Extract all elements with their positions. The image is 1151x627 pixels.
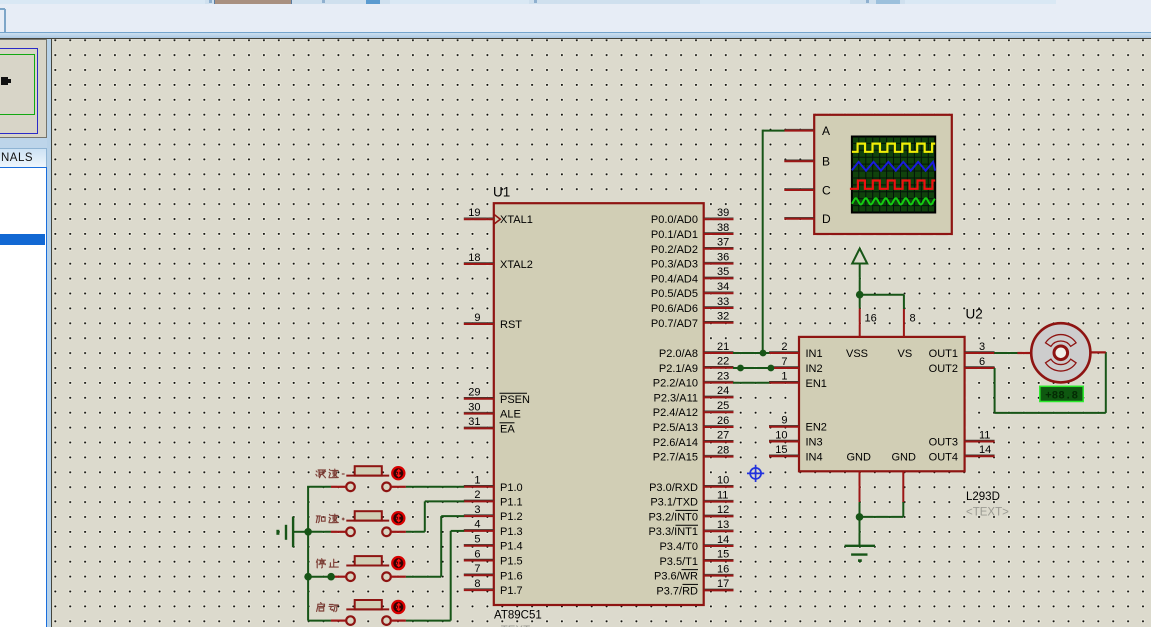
- svg-text:6: 6: [979, 356, 985, 368]
- svg-text:P3.4/T0: P3.4/T0: [659, 541, 698, 553]
- svg-text:28: 28: [717, 444, 729, 456]
- svg-text:P0.6/AD6: P0.6/AD6: [651, 303, 698, 315]
- junction GND: [856, 513, 864, 521]
- oscilloscope screen: [852, 137, 935, 213]
- svg-text:21: 21: [717, 341, 729, 353]
- NALS tab header: [0, 148, 47, 168]
- svg-text:16: 16: [865, 313, 877, 325]
- svg-text:EA: EA: [500, 423, 515, 435]
- svg-text:10: 10: [717, 475, 729, 487]
- svg-text:P2.1/A9: P2.1/A9: [659, 363, 698, 375]
- origin marker: [747, 465, 764, 482]
- svg-text:1: 1: [781, 371, 787, 383]
- wire bus to SW1: [307, 486, 331, 488]
- toolbar main band: [0, 4, 1151, 32]
- svg-text:IN2: IN2: [806, 363, 823, 375]
- svg-text:P0.1/AD1: P0.1/AD1: [651, 229, 698, 241]
- svg-text:24: 24: [717, 385, 729, 397]
- svg-text:3: 3: [979, 341, 985, 353]
- svg-text:XTAL2: XTAL2: [500, 259, 533, 271]
- svg-text:C: C: [822, 183, 831, 197]
- svg-text:GND: GND: [847, 451, 872, 463]
- ground symbol left (rotated): [278, 517, 308, 548]
- motor rpm display +88.8: [1040, 386, 1083, 402]
- svg-text:16: 16: [717, 563, 729, 575]
- button actuator 2: [392, 512, 404, 524]
- svg-text:OUT2: OUT2: [929, 363, 958, 375]
- push button SW4 (启动): [317, 600, 406, 625]
- wire VSS junction to VS: [860, 295, 904, 309]
- left preview panel: [0, 39, 47, 138]
- svg-text:31: 31: [468, 416, 480, 428]
- svg-text:IN1: IN1: [806, 348, 823, 360]
- svg-text:B: B: [822, 155, 830, 169]
- oscilloscope body: [814, 115, 952, 234]
- wire OUT2 around to motor right: [995, 352, 1106, 413]
- svg-text:AT89C51: AT89C51: [494, 610, 542, 622]
- svg-text:33: 33: [717, 296, 729, 308]
- svg-text:P1.1: P1.1: [500, 496, 523, 508]
- svg-text:P3.6/WR: P3.6/WR: [654, 571, 698, 583]
- svg-text:P0.3/AD3: P0.3/AD3: [651, 259, 698, 271]
- wire left bus vertical: [307, 487, 309, 621]
- push button SW1 (减速): [316, 466, 406, 491]
- wire GND pins to ground: [860, 502, 904, 546]
- svg-text:P0.5/AD5: P0.5/AD5: [651, 288, 698, 300]
- svg-text:A: A: [822, 124, 830, 138]
- svg-text:27: 27: [717, 430, 729, 442]
- toolbar top fragments: [0, 0, 1056, 4]
- svg-text:P1.7: P1.7: [500, 585, 523, 597]
- svg-text:9: 9: [474, 312, 480, 324]
- motor pins: [1017, 351, 1105, 354]
- svg-text:38: 38: [717, 222, 729, 234]
- wire OUT1 to motor left: [994, 352, 1017, 354]
- waveform blue triangle (channel B): [852, 162, 935, 171]
- junction on IN2 wire right: [768, 365, 775, 372]
- U1 right pin stubs and numbers: [648, 207, 733, 597]
- junction on IN2 wire left: [737, 365, 744, 372]
- svg-text:GND: GND: [892, 451, 917, 463]
- motor body: [1031, 323, 1090, 382]
- svg-text:+88.8: +88.8: [1045, 391, 1078, 403]
- svg-text:XTAL1: XTAL1: [500, 214, 533, 226]
- svg-text:P1.6: P1.6: [500, 570, 523, 582]
- waveform red square (channel C): [850, 181, 935, 189]
- wire scope A to IN1 net vertical: [763, 130, 785, 353]
- svg-text:1: 1: [474, 475, 480, 487]
- wire U1 P2.0 to U2 IN1: [733, 352, 770, 354]
- svg-text:ALE: ALE: [500, 409, 521, 421]
- svg-text:P2.4/A12: P2.4/A12: [653, 407, 698, 419]
- svg-text:11: 11: [717, 489, 728, 501]
- svg-text:P1.5: P1.5: [500, 556, 523, 568]
- svg-text:P3.3/INT1: P3.3/INT1: [648, 526, 698, 538]
- svg-text:P2.2/A10: P2.2/A10: [653, 378, 698, 390]
- svg-text:P2.7/A15: P2.7/A15: [653, 452, 698, 464]
- svg-text:P3.0/RXD: P3.0/RXD: [649, 482, 698, 494]
- wire SW1 to P1.0: [406, 486, 464, 488]
- svg-text:U2: U2: [966, 307, 983, 322]
- wire U1 P2.1 to U2 IN2: [733, 367, 770, 369]
- ground symbol under U2: [845, 546, 875, 561]
- svg-text:P2.0/A8: P2.0/A8: [659, 348, 698, 360]
- U1 left pin stubs and numbers: [464, 207, 533, 597]
- svg-text:P0.2/AD2: P0.2/AD2: [651, 244, 698, 256]
- junction scope-A / IN1: [760, 350, 767, 357]
- svg-text:EN1: EN1: [806, 378, 827, 390]
- svg-text:EN2: EN2: [806, 422, 827, 434]
- wire bus to SW2: [308, 531, 331, 533]
- svg-text:PSEN: PSEN: [500, 394, 530, 406]
- svg-text:26: 26: [717, 415, 729, 427]
- svg-text:P1.4: P1.4: [500, 541, 523, 553]
- wire SW2 to P1.1: [406, 501, 464, 531]
- svg-text:P1.2: P1.2: [500, 511, 523, 523]
- svg-text:35: 35: [717, 266, 729, 278]
- svg-text:P0.7/AD7: P0.7/AD7: [651, 318, 698, 330]
- svg-text:30: 30: [468, 401, 480, 413]
- svg-text:P3.5/T1: P3.5/T1: [659, 556, 698, 568]
- power terminal arrow above VSS: [852, 249, 867, 309]
- svg-text:29: 29: [468, 387, 480, 399]
- svg-text:14: 14: [717, 534, 729, 546]
- svg-text:17: 17: [717, 578, 729, 590]
- push button SW2 (加速): [316, 511, 406, 536]
- svg-text:VS: VS: [898, 348, 913, 360]
- U2 bottom GND pins: [847, 451, 917, 502]
- svg-text:19: 19: [468, 207, 480, 219]
- wire SW3 to P1.2: [406, 516, 464, 577]
- splitter column: [47, 39, 51, 627]
- svg-text:OUT4: OUT4: [929, 451, 958, 463]
- selected row: [0, 234, 45, 245]
- junction VSS/VS: [856, 291, 864, 299]
- svg-text:32: 32: [717, 311, 729, 323]
- svg-text:P1.0: P1.0: [500, 482, 523, 494]
- mcu U1 AT89C51 body: [493, 185, 704, 627]
- push button SW3 (停止): [316, 556, 406, 581]
- button actuator 1: [392, 467, 404, 479]
- svg-text:P3.7/RD: P3.7/RD: [656, 585, 698, 597]
- svg-text:36: 36: [717, 251, 729, 263]
- wire U1 P2.2 to U2 EN1: [733, 382, 770, 384]
- svg-text:6: 6: [474, 548, 480, 560]
- button actuator 3: [392, 557, 404, 569]
- svg-text:P0.0/AD0: P0.0/AD0: [651, 214, 698, 226]
- svg-text:P2.5/A13: P2.5/A13: [653, 422, 698, 434]
- waveform yellow square (channel A): [852, 144, 935, 152]
- svg-text:P3.1/TXD: P3.1/TXD: [650, 497, 698, 509]
- junction bus/SW3: [304, 573, 312, 581]
- svg-text:P0.4/AD4: P0.4/AD4: [651, 273, 698, 285]
- svg-text:P2.6/A14: P2.6/A14: [653, 437, 698, 449]
- svg-text:P3.2/INT0: P3.2/INT0: [648, 511, 698, 523]
- U2 right pin stubs and numbers: [929, 341, 995, 464]
- svg-text:3: 3: [474, 504, 480, 516]
- junction bus/ground: [304, 528, 312, 536]
- svg-text:VSS: VSS: [846, 348, 868, 360]
- svg-text:2: 2: [781, 341, 787, 353]
- oscilloscope pins A B C D: [784, 129, 814, 218]
- U2 left pin stubs and numbers: [769, 341, 827, 464]
- wire bus to SW4: [308, 620, 331, 622]
- svg-text:18: 18: [468, 252, 480, 264]
- svg-text:8: 8: [474, 578, 480, 590]
- svg-text:37: 37: [717, 237, 729, 249]
- svg-text:P1.3: P1.3: [500, 526, 523, 538]
- svg-text:10: 10: [775, 429, 787, 441]
- svg-text:D: D: [822, 212, 831, 226]
- svg-text:15: 15: [717, 549, 729, 561]
- svg-text:2: 2: [474, 489, 480, 501]
- svg-text:RST: RST: [500, 319, 522, 331]
- svg-text:13: 13: [717, 519, 729, 531]
- svg-text:25: 25: [717, 400, 729, 412]
- wire bus to SW3: [308, 576, 331, 578]
- svg-text:5: 5: [474, 534, 480, 546]
- object list: [0, 167, 47, 627]
- svg-text:U1: U1: [493, 185, 510, 200]
- svg-text:4: 4: [474, 519, 480, 531]
- driver U2 L293D body: [799, 307, 1009, 519]
- svg-text:8: 8: [910, 313, 916, 325]
- svg-text:7: 7: [781, 356, 787, 368]
- svg-text:OUT1: OUT1: [929, 348, 958, 360]
- svg-text:12: 12: [717, 504, 729, 516]
- svg-text:L293D: L293D: [966, 491, 1000, 503]
- junction SW3 stub: [327, 573, 335, 581]
- svg-text:39: 39: [717, 207, 729, 219]
- svg-text:22: 22: [717, 356, 729, 368]
- svg-text:P2.3/A11: P2.3/A11: [654, 392, 698, 404]
- svg-text:7: 7: [474, 563, 480, 575]
- gap under preview: [0, 138, 51, 147]
- svg-text:34: 34: [717, 281, 729, 293]
- svg-text:OUT3: OUT3: [929, 437, 958, 449]
- svg-text:IN3: IN3: [806, 437, 823, 449]
- button actuator 4: [392, 601, 404, 613]
- wire SW4 to P1.3: [406, 531, 464, 621]
- svg-text:9: 9: [781, 415, 787, 427]
- U2 top pins VSS VS: [846, 309, 916, 361]
- svg-text:15: 15: [775, 444, 787, 456]
- svg-text:14: 14: [979, 444, 991, 456]
- svg-text:<TEXT>: <TEXT>: [966, 507, 1009, 519]
- svg-text:IN4: IN4: [806, 451, 823, 463]
- svg-text:11: 11: [979, 429, 990, 441]
- waveform green sine (channel D): [852, 198, 935, 204]
- svg-text:23: 23: [717, 370, 729, 382]
